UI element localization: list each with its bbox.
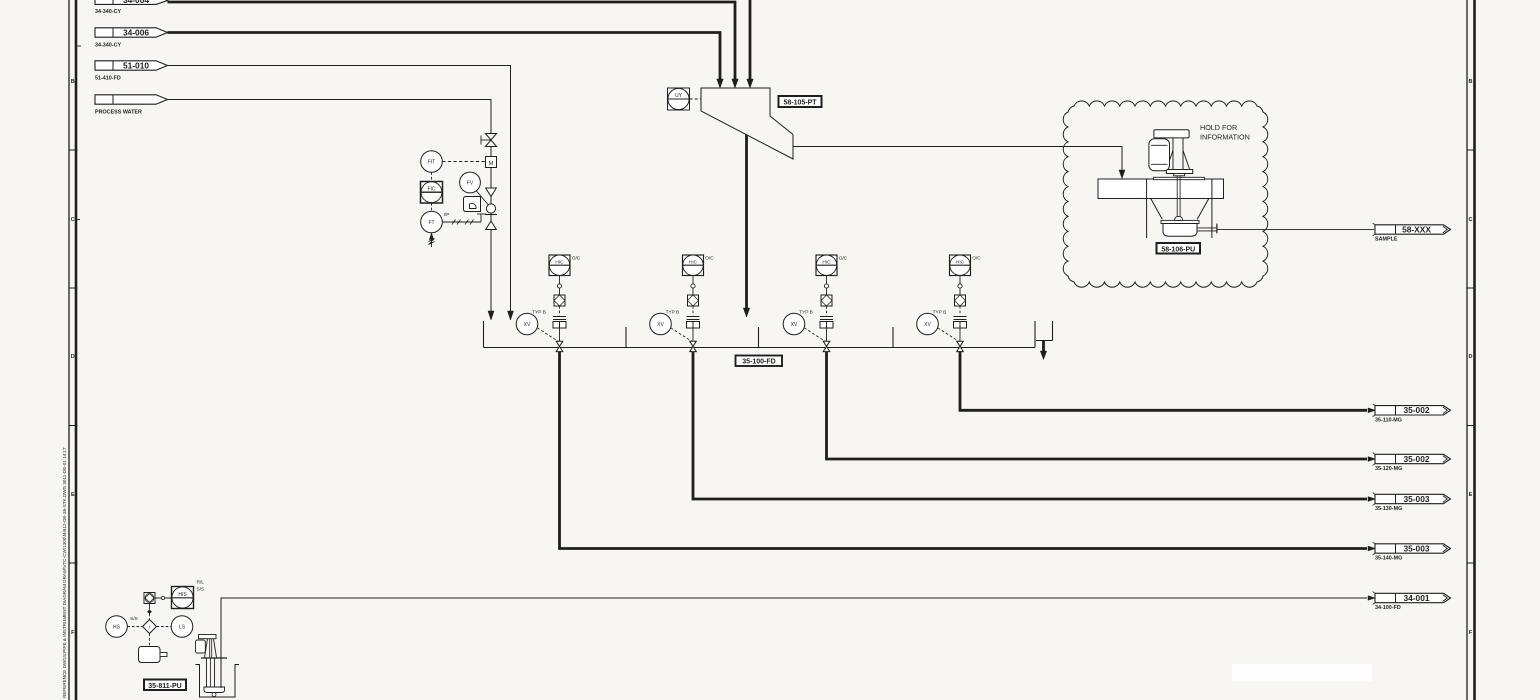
svg-text:TYP B: TYP B: [532, 309, 546, 315]
svg-text:34-340-CY: 34-340-CY: [95, 9, 121, 15]
svg-text:I/P: I/P: [444, 212, 450, 218]
svg-text:35-120-MG: 35-120-MG: [1375, 466, 1402, 472]
svg-text:58-XXX: 58-XXX: [1402, 224, 1431, 234]
svg-text:FIT: FIT: [428, 160, 436, 166]
svg-text:FV: FV: [467, 181, 474, 187]
svg-text:35-002: 35-002: [1403, 405, 1429, 415]
svg-text:REFERENCE DWGS:PIPE & INSTRUME: REFERENCE DWGS:PIPE & INSTRUMENT DIAGRAM…: [62, 447, 67, 698]
svg-text:D: D: [71, 354, 75, 360]
svg-text:M: M: [489, 161, 494, 167]
svg-text:XV: XV: [791, 322, 798, 328]
svg-text:58-105-PT: 58-105-PT: [783, 99, 817, 106]
svg-text:E: E: [1469, 492, 1473, 498]
svg-text:35-130-MG: 35-130-MG: [1375, 506, 1402, 512]
svg-text:O/C: O/C: [705, 256, 714, 262]
svg-text:FIC: FIC: [427, 186, 435, 192]
svg-text:O/C: O/C: [839, 256, 848, 262]
svg-text:XV: XV: [524, 322, 531, 328]
svg-text:HIC: HIC: [956, 259, 965, 265]
svg-text:S/S: S/S: [130, 616, 138, 622]
svg-text:C: C: [1469, 217, 1473, 223]
svg-text:35-140-MG: 35-140-MG: [1375, 556, 1402, 562]
svg-text:SAMPLE: SAMPLE: [1375, 237, 1398, 243]
svg-text:E: E: [71, 492, 75, 498]
svg-text:34-004: 34-004: [123, 0, 149, 5]
svg-text:HIS: HIS: [178, 592, 187, 598]
svg-text:PROCESS WATER: PROCESS WATER: [95, 110, 142, 116]
svg-text:TYP B: TYP B: [666, 309, 680, 315]
svg-text:34-001: 34-001: [1403, 593, 1429, 603]
svg-text:FT: FT: [428, 220, 434, 226]
svg-text:34-100-FD: 34-100-FD: [1375, 605, 1401, 611]
svg-text:HIC: HIC: [555, 259, 564, 265]
svg-text:TYP B: TYP B: [933, 309, 947, 315]
svg-text:HIC: HIC: [822, 259, 831, 265]
svg-text:B: B: [71, 79, 75, 85]
svg-text:35-002: 35-002: [1403, 454, 1429, 464]
svg-text:HOLD FOR: HOLD FOR: [1200, 123, 1237, 132]
svg-text:S/S: S/S: [197, 587, 205, 593]
svg-text:XV: XV: [924, 322, 931, 328]
svg-text:LS: LS: [179, 625, 186, 631]
svg-text:D: D: [1469, 354, 1473, 360]
svg-text:UY: UY: [675, 93, 683, 99]
svg-text:51-010: 51-010: [123, 60, 149, 70]
svg-text:XV: XV: [657, 322, 664, 328]
svg-text:35-811-PU: 35-811-PU: [148, 683, 181, 690]
svg-text:51-410-FD: 51-410-FD: [95, 76, 121, 82]
svg-text:HS: HS: [113, 625, 121, 631]
svg-text:35-003: 35-003: [1403, 543, 1429, 553]
svg-text:R/L: R/L: [197, 580, 205, 586]
svg-text:HIC: HIC: [689, 259, 698, 265]
svg-text:O/C: O/C: [972, 256, 981, 262]
svg-text:35-003: 35-003: [1403, 494, 1429, 504]
svg-text:INFORMATION: INFORMATION: [1200, 133, 1250, 142]
svg-text:TYP B: TYP B: [799, 309, 813, 315]
svg-text:35-100-FD: 35-100-FD: [742, 359, 775, 366]
svg-text:O/C: O/C: [572, 256, 581, 262]
svg-text:34-006: 34-006: [123, 27, 149, 37]
svg-text:34-340-CY: 34-340-CY: [95, 43, 121, 49]
svg-text:B: B: [1469, 79, 1473, 85]
svg-text:58-106-PU: 58-106-PU: [1161, 246, 1195, 253]
svg-text:C: C: [71, 217, 75, 223]
svg-text:I: I: [149, 625, 150, 631]
svg-text:35-110-MG: 35-110-MG: [1375, 418, 1402, 424]
